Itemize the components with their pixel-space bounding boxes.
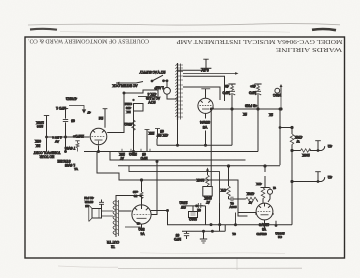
wire (118, 200, 120, 236)
wire: 6.3V heater tap (178, 69, 205, 71)
wire (201, 240, 206, 242)
svg-text:100K: 100K (301, 153, 309, 157)
filter cap C2 40MFD (254, 84, 261, 152)
resistor 100K column (206, 175, 210, 185)
wire (202, 242, 204, 244)
wire (157, 129, 159, 139)
wire (231, 84, 233, 86)
junction (317, 150, 319, 152)
svg-text:117V: 117V (148, 100, 156, 104)
wire (63, 119, 68, 121)
resistor (132, 120, 136, 130)
wire (116, 82, 119, 85)
wire (134, 213, 150, 215)
tube bottom to bus B (98, 146, 100, 152)
wire (93, 130, 105, 133)
ground symbol bottom (200, 231, 207, 243)
svg-text:05: 05 (71, 118, 75, 122)
wire (230, 86, 233, 91)
wire (152, 162, 158, 215)
input cap leg (46, 116, 48, 152)
svg-text:MFD: MFD (173, 237, 181, 241)
svg-text:01: 01 (230, 201, 234, 205)
junction (65, 151, 67, 153)
svg-text:150Ω: 150Ω (179, 201, 188, 205)
svg-text:AC INTERLOCK: AC INTERLOCK (112, 83, 138, 87)
bus E (182, 230, 225, 232)
junction (210, 108, 212, 110)
wire (235, 213, 237, 225)
svg-text:2MFD+: 2MFD+ (73, 134, 84, 138)
svg-text:40+: 40+ (250, 84, 256, 88)
bus A (157, 144, 232, 146)
svg-text:C2: C2 (278, 235, 282, 239)
wire (103, 108, 108, 110)
svg-text:AT: AT (120, 156, 124, 160)
wire (167, 81, 178, 99)
wire hook near input cap (69, 106, 84, 111)
svg-text:MFD 1: MFD 1 (56, 106, 66, 110)
junction (264, 165, 266, 167)
wire (203, 231, 205, 239)
component circle (198, 98, 213, 113)
branch to resistor column (280, 127, 292, 129)
svg-text:100K: 100K (203, 196, 211, 200)
fuse lamp circle (164, 87, 171, 94)
component circle (132, 205, 151, 224)
V4 grid column (140, 179, 142, 181)
wire OPT to tube (119, 210, 132, 212)
wire (98, 209, 100, 219)
svg-text:100K: 100K (196, 178, 204, 182)
junction (317, 181, 319, 183)
wire (262, 188, 264, 203)
bus C (118, 165, 280, 167)
wire (200, 105, 212, 107)
transformer bottom to bus A (177, 120, 179, 145)
svg-text:V5: V5 (203, 125, 207, 129)
svg-text:05: 05 (160, 129, 164, 133)
plate wire up and right (107, 90, 158, 133)
svg-text:35W4: 35W4 (200, 120, 210, 124)
svg-text:+B PKG: +B PKG (245, 104, 257, 108)
component circle (90, 128, 107, 145)
wire (280, 87, 282, 97)
parallel routing line (129, 166, 220, 203)
V3 grid lines from left (238, 212, 256, 214)
wire (167, 211, 169, 225)
svg-text:470K: 470K (294, 135, 303, 139)
speaker (89, 205, 113, 222)
svg-text:TONE+VOL CONT: TONE+VOL CONT (34, 151, 61, 155)
resistor (227, 186, 231, 196)
svg-text:COURTESY OF MONTGOMERY WARD &: COURTESY OF MONTGOMERY WARD & CO. (28, 38, 149, 44)
junction (291, 180, 293, 182)
RC run to V3 grid (229, 198, 246, 200)
wire (116, 201, 119, 235)
svg-text:7 6V6S: 7 6V6S (65, 146, 75, 150)
wire (257, 84, 259, 86)
tube V1 (90, 128, 107, 145)
wire (322, 177, 325, 181)
wire (180, 64, 182, 120)
resistor (246, 197, 256, 201)
svg-text:6.3V: 6.3V (201, 68, 209, 72)
junction (219, 224, 221, 226)
svg-text:MFD: MFD (248, 91, 256, 95)
svg-text:40: 40 (137, 222, 141, 226)
wire (255, 90, 261, 92)
svg-text:100Ω: 100Ω (189, 217, 197, 221)
svg-text:WARDS AIRLINE: WARDS AIRLINE (276, 46, 342, 52)
svg-text:47K: 47K (220, 188, 227, 192)
svg-text:1 BY 4: 1 BY 4 (52, 135, 62, 139)
svg-text:MODEL GVC-9046A MUSICAL INSTR: MODEL GVC-9046A MUSICAL INSTRUMENT AMP (176, 38, 343, 44)
wire (140, 192, 143, 199)
svg-text:05: 05 (142, 152, 146, 156)
components above V3 (261, 187, 270, 189)
B+ vertical (279, 109, 281, 165)
wire (280, 96, 282, 109)
svg-text:12AV6: 12AV6 (259, 223, 269, 227)
junction (46, 136, 48, 138)
scan artifact: faint bottom line (118, 267, 302, 269)
junction (231, 108, 233, 110)
junction (210, 224, 212, 226)
junction (291, 149, 293, 151)
svg-text:150K: 150K (35, 121, 44, 125)
component circle (275, 88, 280, 93)
resistor (301, 149, 311, 153)
wire (192, 206, 194, 212)
stepped bus L2 (97, 152, 248, 217)
wire (99, 202, 104, 204)
wire (200, 100, 211, 103)
wire (322, 146, 325, 150)
wire (135, 205, 149, 210)
component circle (268, 189, 273, 194)
wire (229, 90, 235, 92)
47K column from bus C (228, 166, 230, 186)
wire (317, 141, 319, 151)
verticals between buses (206, 203, 226, 231)
wire (207, 185, 209, 186)
wire (317, 172, 319, 182)
bus D (167, 224, 292, 226)
svg-text:STROBE: STROBE (57, 159, 70, 163)
jack 2 (292, 181, 322, 183)
junction (166, 80, 168, 82)
svg-text:MFD: MFD (222, 91, 230, 95)
wire (256, 86, 259, 91)
resistor column x292 (291, 128, 293, 225)
wire (255, 203, 274, 214)
wire (228, 196, 230, 199)
svg-text:NO TOUR: NO TOUR (39, 155, 54, 159)
tube V3 (255, 203, 274, 220)
tap labels below bus (122, 149, 150, 152)
junction (151, 80, 153, 82)
svg-text:117 V AC SUPPLY: 117 V AC SUPPLY (139, 70, 166, 74)
svg-text:01: 01 (232, 232, 236, 236)
wire: +B bus (213, 108, 280, 110)
svg-text:1000Ω: 1000Ω (275, 231, 285, 235)
junction (227, 165, 229, 167)
wire (264, 166, 266, 188)
junction (291, 126, 293, 128)
V1 top cap (104, 109, 106, 128)
small cap pair (198, 203, 201, 208)
wire (156, 139, 158, 146)
jack 1 (292, 150, 322, 152)
wire (155, 128, 160, 130)
svg-text:V1: V1 (74, 167, 78, 171)
junction (280, 108, 282, 110)
wire (164, 80, 168, 82)
AC interlock arrow (116, 82, 136, 84)
svg-text:450: 450 (126, 106, 131, 110)
wire (231, 197, 233, 202)
junction (177, 144, 179, 146)
resistor line 133.5 with loop (133, 103, 135, 152)
scan artifact: dark smudge top-right (312, 29, 336, 30)
wire (203, 58, 208, 60)
svg-text:47K 1W: 47K 1W (157, 133, 168, 137)
value label PLUG (138, 96, 157, 98)
junction (132, 99, 134, 101)
wire (200, 238, 207, 240)
wire (205, 89, 207, 99)
junction (163, 80, 165, 82)
svg-text:10%: 10% (37, 124, 43, 128)
scan artifact: dark smudge top-left (30, 28, 57, 31)
svg-text:OEM: OEM (125, 102, 132, 106)
wire (191, 213, 196, 215)
stepped bus L1 (110, 152, 246, 161)
wire (231, 95, 233, 146)
junction (279, 108, 281, 110)
wire (58, 266, 118, 267)
wire (184, 234, 189, 236)
wire OPT top / tube top (116, 196, 142, 205)
svg-text:W: W (296, 139, 299, 143)
wire: grid line (47, 136, 90, 138)
svg-text:02: 02 (197, 208, 201, 212)
wire (268, 188, 270, 203)
resistor (290, 134, 294, 144)
junction (211, 230, 213, 232)
svg-text:47K: 47K (255, 182, 261, 186)
junction (257, 108, 259, 110)
svg-text:250Ω: 250Ω (129, 152, 137, 156)
right bottom wire (275, 221, 277, 225)
tube V4 50C5 (132, 205, 151, 224)
wire (102, 211, 114, 216)
junction (196, 205, 198, 207)
pilot lamp (275, 84, 283, 109)
junction (65, 136, 67, 138)
wire (63, 108, 68, 110)
junction (235, 224, 237, 226)
bus B controls (84, 151, 258, 153)
svg-text:+20: +20 (133, 190, 139, 194)
wire (178, 65, 184, 117)
svg-text:1M: 1M (98, 116, 103, 120)
junction (279, 127, 281, 129)
wire (89, 205, 92, 222)
wire (92, 135, 106, 137)
junction (275, 225, 277, 227)
wire (206, 168, 209, 171)
wire (258, 210, 272, 212)
wire (134, 104, 144, 112)
wire (229, 94, 235, 95)
junction (167, 210, 169, 212)
box component (189, 212, 198, 218)
wire: B+ lead with arrow (183, 72, 236, 74)
wire (201, 88, 210, 90)
svg-text:05MFD: 05MFD (256, 232, 267, 236)
wire (315, 171, 321, 173)
box component (92, 209, 102, 219)
junction (133, 151, 135, 153)
svg-text:68K: 68K (34, 139, 41, 143)
wire (175, 64, 177, 117)
wire (75, 140, 79, 142)
control taps above bus (146, 130, 148, 152)
svg-text:V90C: V90C (272, 93, 281, 97)
svg-text:T2: T2 (111, 244, 115, 248)
svg-text:25K: 25K (118, 152, 125, 156)
junction (203, 230, 205, 232)
junction (98, 151, 100, 153)
speaker cap (101, 200, 103, 209)
wire (115, 199, 117, 237)
wire (235, 72, 238, 75)
svg-text:47K 4: 47K 4 (148, 92, 157, 96)
scan artifact: faint top wavy line (28, 24, 340, 25)
wire (141, 180, 143, 205)
junction (123, 92, 125, 94)
wire (125, 226, 141, 228)
svg-text:OUT TR: OUT TR (106, 240, 119, 244)
wire: loop plate lead lower (183, 87, 220, 100)
svg-text:450Ω: 450Ω (124, 122, 132, 126)
wire (254, 83, 261, 85)
wire (185, 205, 206, 207)
V3 cathode down (264, 220, 266, 230)
scan artifact: faint inner speckle row (140, 252, 285, 255)
output transformer T2 (113, 199, 119, 237)
wire (44, 115, 49, 117)
wire (76, 141, 79, 152)
svg-text:470K: 470K (246, 192, 254, 196)
wire (228, 83, 235, 85)
box component (203, 187, 212, 197)
svg-text:470KΩ: 470KΩ (66, 96, 77, 100)
cap 470K leg (65, 109, 67, 152)
svg-text:1 AMP: 1 AMP (154, 85, 163, 89)
wire (205, 59, 207, 68)
svg-text:t2: t2 (273, 186, 276, 190)
ground 6.3V (inverted) (201, 59, 212, 68)
power transformer T1 (175, 63, 183, 120)
svg-text:V4: V4 (140, 231, 144, 235)
paper texture noise (0, 0, 1, 1)
svg-text:47: 47 (87, 111, 91, 115)
AC line switch (152, 75, 163, 81)
wire (255, 94, 261, 95)
filter cap C1 40MFD (228, 84, 235, 145)
svg-text:4Ω PM: 4Ω PM (84, 196, 94, 200)
schematic border frame (25, 37, 345, 258)
svg-text:AT: AT (206, 200, 210, 204)
cap to ground bottom (186, 231, 188, 239)
wire (256, 199, 258, 202)
svg-text:V3: V3 (262, 227, 266, 231)
svg-text:600V: 600V (228, 205, 236, 209)
wire (145, 129, 150, 131)
scan artifact: faint speckle row (60, 30, 290, 33)
cathode down (141, 225, 143, 232)
wire (257, 95, 259, 152)
rectifier tube 35W4 V5 (198, 89, 213, 114)
svg-text:05: 05 (85, 204, 89, 208)
svg-text:05: 05 (176, 233, 180, 237)
wire: loop plate lead upper (183, 76, 225, 101)
svg-text:SPKR: SPKR (84, 200, 93, 204)
arrow to bus C (207, 171, 209, 176)
wire (113, 201, 116, 234)
scan artifact: faint bottom tick (236, 259, 238, 271)
junction (205, 144, 207, 146)
svg-text:25K: 25K (148, 131, 155, 135)
resistor (261, 188, 265, 198)
wire (196, 205, 203, 207)
svg-text:4Ω: 4Ω (327, 175, 332, 179)
wire: rect cathode down (205, 114, 207, 146)
svg-text:4Ω: 4Ω (327, 144, 332, 148)
wire (201, 67, 212, 69)
wire (280, 84, 283, 87)
B+ drop to inverter box (210, 109, 212, 187)
svg-text:AT: AT (249, 200, 253, 204)
wire (315, 140, 321, 142)
component circle (256, 203, 273, 220)
svg-text:MFD: MFD (140, 156, 148, 160)
wire tube right to bus D (151, 210, 168, 212)
svg-text:1 6V65: 1 6V65 (65, 163, 75, 167)
wire (177, 63, 179, 120)
wire (136, 82, 143, 84)
svg-text:40: 40 (225, 84, 229, 88)
vertical from L1 to tube right (156, 161, 158, 163)
